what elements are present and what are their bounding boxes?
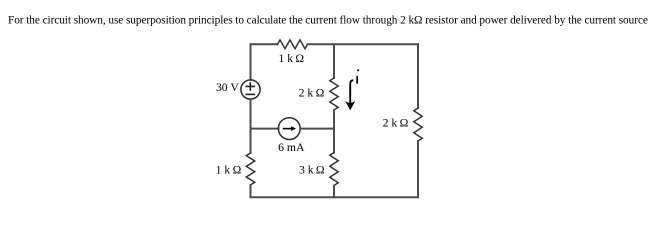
voltage source V1 30V (241, 80, 260, 99)
wire top-right segment (308, 43, 419, 45)
resistor R3 1kΩ bottom-left vertical (246, 153, 254, 185)
wire right rail lower (R5 to bottom wire) (417, 141, 419, 197)
wire left rail lower (R3 to bottom wire) (250, 185, 252, 197)
wire top-left segment (251, 43, 278, 45)
svg-text:6 mA: 6 mA (278, 141, 305, 154)
svg-text:2 k Ω: 2 k Ω (383, 117, 409, 130)
label current i (356, 69, 359, 83)
resistor R5 2kΩ right vertical (414, 108, 422, 141)
resistor R4 3kΩ bottom-middle vertical (330, 153, 338, 186)
resistor R1 1kΩ top horizontal (278, 40, 308, 49)
wire bottom (251, 196, 419, 198)
svg-text:For the circuit shown, use sup: For the circuit shown, use superposition… (8, 15, 648, 27)
wire middle rail lower (R4 to bottom wire) (333, 186, 335, 198)
current arrow i (branch current through R2) (345, 80, 355, 110)
wire left rail upper (top wire to V1) (250, 44, 252, 80)
svg-text:30 V: 30 V (216, 81, 239, 94)
wire right rail upper (top wire to R5) (417, 44, 419, 108)
current source I1 6mA (278, 118, 300, 140)
wire middle rail upper (top wire to R2) (333, 44, 335, 78)
svg-text:2 k Ω: 2 k Ω (299, 86, 325, 99)
V1 minus terminal (246, 93, 254, 95)
svg-text:1 k Ω: 1 k Ω (278, 52, 304, 65)
I1 arrow symbol (283, 126, 296, 131)
svg-text:3 k Ω: 3 k Ω (299, 163, 325, 176)
svg-text:1 k Ω: 1 k Ω (216, 163, 242, 176)
wire left rail middle (V1 to node, to R3) (250, 99, 252, 153)
wire middle horizontal left (left rail to I1) (251, 128, 279, 130)
wire middle rail between R2 and R4 (333, 110, 335, 153)
resistor R2 2kΩ middle vertical (330, 78, 338, 110)
V1 plus terminal (246, 83, 254, 90)
wire middle horizontal right (I1 to middle rail) (300, 128, 334, 130)
